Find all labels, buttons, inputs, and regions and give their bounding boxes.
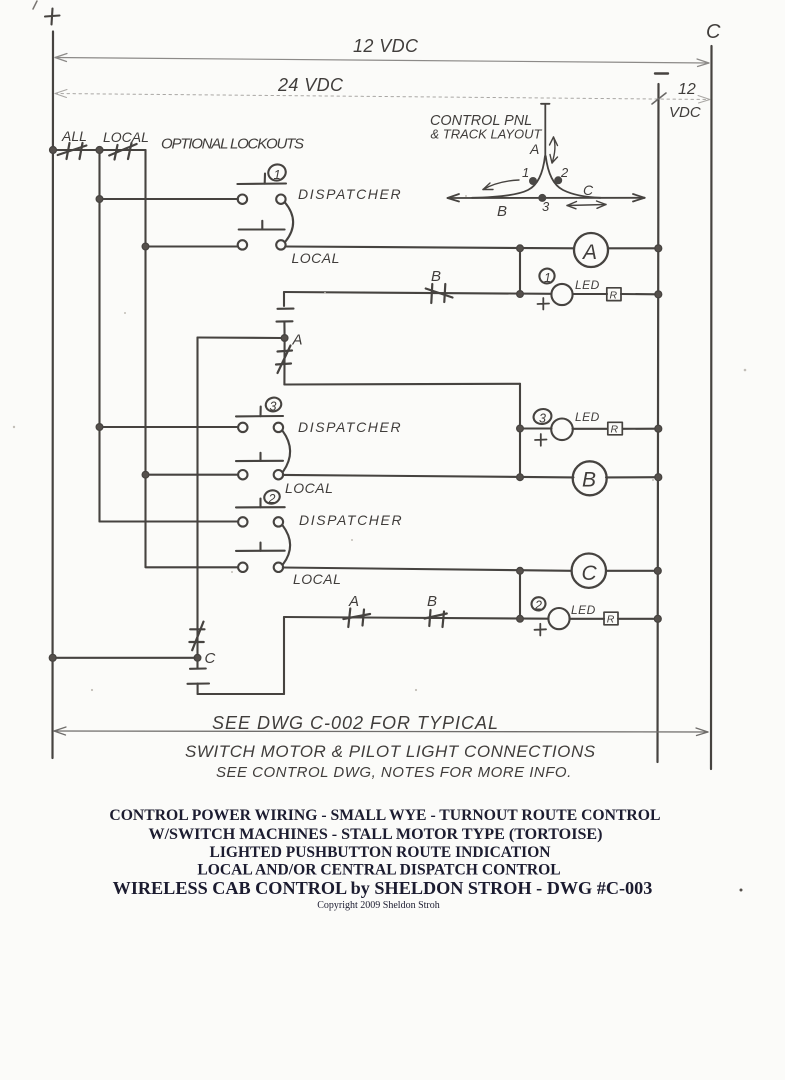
svg-text:& TRACK LAYOUT: & TRACK LAYOUT (431, 127, 543, 142)
svg-text:2: 2 (268, 492, 276, 506)
LED D1 (538, 284, 573, 310)
wire R8 PB3 local feed (146, 474, 239, 476)
node V3-R8 (142, 471, 149, 478)
svg-text:LED: LED (571, 603, 596, 617)
svg-text:DISPATCHER: DISPATCHER (298, 186, 402, 202)
wire R9 PB2 dispatcher feed (100, 520, 239, 522)
wire V4 (196, 338, 198, 669)
lockout slashes A column (276, 341, 292, 385)
svg-text:LIGHTED PUSHBUTTON ROUTE INDIC: LIGHTED PUSHBUTTON ROUTE INDICATION (210, 844, 551, 861)
wire R8 right to indicator B (283, 475, 574, 478)
pushbutton PB1 dispatcher contact (237, 174, 286, 204)
svg-text:ALL: ALL (61, 128, 87, 144)
node V7-R3 (655, 245, 662, 252)
node V6-R8 (517, 474, 524, 481)
node V7-LED3 (655, 425, 662, 432)
svg-text:1: 1 (274, 167, 281, 182)
LED3 row wire (520, 427, 552, 429)
svg-text:B: B (427, 593, 437, 610)
svg-text:B: B (431, 268, 441, 285)
node V2-R7 (96, 424, 103, 431)
node V6-R11 (517, 615, 524, 622)
wire V6 lower link (519, 571, 521, 619)
track sketch curve C leg (546, 156, 601, 198)
track dot 2 (554, 176, 562, 184)
arc PB1 link (285, 203, 293, 242)
lockout slashes C column (189, 622, 204, 651)
svg-text:B: B (582, 469, 596, 492)
circled 1 LED1 (538, 267, 557, 285)
svg-text:DISPATCHER: DISPATCHER (299, 512, 403, 528)
svg-text:A: A (529, 141, 539, 157)
svg-text:LOCAL: LOCAL (103, 129, 149, 145)
arc PB2 link (283, 525, 291, 564)
node V7-R8 (655, 474, 662, 481)
wire V1 left +24V bus (51, 32, 54, 759)
svg-text:LOCAL: LOCAL (285, 480, 333, 496)
track curved arrow A (550, 137, 558, 163)
svg-text:R: R (610, 290, 618, 302)
svg-text:VDC: VDC (669, 104, 701, 121)
node V6-R4 (517, 291, 524, 298)
svg-text:SWITCH MOTOR & PILOT LIGHT CON: SWITCH MOTOR & PILOT LIGHT CONNECTIONS (185, 742, 596, 761)
wire R2 PB1 dispatcher feed (100, 198, 239, 200)
arc PB3 link (283, 431, 291, 472)
svg-text:A: A (348, 593, 359, 610)
node V7-R11 (654, 615, 661, 622)
pushbutton PB1 local contact (238, 221, 286, 250)
svg-text:CONTROL POWER WIRING - SMALL W: CONTROL POWER WIRING - SMALL WYE - TURNO… (109, 807, 660, 824)
dimension line bottom (54, 727, 708, 736)
node V6-LED3 (517, 425, 524, 432)
svg-text:3: 3 (539, 412, 546, 426)
wire V2 (98, 150, 100, 522)
svg-text:W/SWITCH MACHINES - STALL MOTO: W/SWITCH MACHINES - STALL MOTOR TYPE (TO… (148, 826, 602, 843)
node V6-R3 (517, 245, 524, 252)
track sketch curve B leg (472, 156, 545, 198)
LED D3 (535, 419, 573, 446)
breaker LOCAL (109, 143, 136, 160)
svg-text:3: 3 (270, 400, 277, 414)
wire R11 LED2 row (284, 617, 549, 619)
svg-text:3: 3 (542, 199, 550, 214)
resistor R box 2 (604, 612, 618, 625)
node R1 junctions (50, 147, 57, 154)
wire V3 (144, 150, 146, 567)
plus terminal + (45, 9, 60, 25)
circled 2 LED2 (530, 596, 547, 613)
circled 2 PB2 (263, 489, 281, 506)
svg-text:R: R (607, 614, 615, 626)
wire V6 upper link (519, 248, 521, 294)
circled 3 LED3 (532, 407, 553, 425)
circled 1 PB1 (266, 162, 288, 183)
wire R3 local row to indicator A (146, 245, 239, 247)
label 12 VDC right (669, 81, 701, 121)
pushbutton PB3 local contact (236, 453, 283, 480)
node V6-R10 (517, 567, 524, 574)
circled 3 PB3 (264, 396, 283, 414)
svg-text:SEE DWG C-002 FOR TYPICAL: SEE DWG C-002 FOR TYPICAL (212, 713, 499, 733)
svg-text:C: C (583, 182, 594, 198)
node V3-R3 (142, 243, 149, 250)
breaker B row11 (425, 610, 447, 627)
svg-text:R: R (611, 424, 619, 436)
contact column A bottom plate (277, 321, 293, 338)
wire R13 bottom jog (198, 693, 284, 695)
svg-text:Copyright 2009 Sheldon Stroh: Copyright 2009 Sheldon Stroh (317, 900, 440, 911)
svg-text:LED: LED (575, 410, 600, 424)
period after C-003 (740, 889, 743, 892)
svg-text:A: A (581, 241, 597, 264)
node V7-R4 (655, 291, 662, 298)
minus polarity mark (655, 72, 668, 74)
svg-text:OPTIONAL LOCKOUTS: OPTIONAL LOCKOUTS (161, 136, 304, 153)
svg-text:LOCAL AND/OR CENTRAL DISPATCH: LOCAL AND/OR CENTRAL DISPATCH CONTROL (197, 861, 560, 878)
svg-text:SEE CONTROL DWG, NOTES FOR MOR: SEE CONTROL DWG, NOTES FOR MORE INFO. (216, 764, 572, 781)
track sketch base line (448, 194, 645, 202)
track arrow B (483, 180, 519, 190)
wire V8 right bus C (710, 46, 713, 769)
breaker ALL (58, 143, 87, 159)
contact column C plates (188, 669, 210, 695)
svg-text:LOCAL: LOCAL (293, 571, 341, 587)
indicator lamp B (573, 461, 607, 495)
wire R10 PB2 local feed (146, 566, 239, 568)
svg-text:A: A (292, 332, 303, 349)
wire R7 PB3 dispatcher feed (100, 426, 239, 428)
svg-text:1: 1 (544, 271, 551, 285)
track dot 3 (538, 194, 546, 202)
svg-text:2: 2 (560, 165, 569, 180)
svg-text:C: C (205, 650, 216, 667)
contact column A top plate (278, 292, 294, 309)
svg-text:B: B (497, 203, 507, 220)
wire R12 from left bus to node C (53, 657, 195, 659)
svg-text:24 VDC: 24 VDC (277, 75, 344, 95)
resistor R box 3 (608, 422, 623, 435)
track arrow C double (567, 201, 606, 209)
LED D2 (535, 608, 570, 636)
breaker A row11 (343, 609, 370, 628)
svg-text:LOCAL: LOCAL (292, 250, 340, 266)
wire V5b (283, 617, 285, 694)
pushbutton PB2 dispatcher contact (236, 499, 285, 527)
wire V6 middle segment (519, 384, 521, 477)
svg-text:LED: LED (575, 278, 600, 292)
wire V7 12VDC minus bus (658, 84, 659, 762)
svg-text:WIRELESS CAB CONTROL by SHELDO: WIRELESS CAB CONTROL by SHELDON STROH - … (113, 878, 653, 898)
wire R5 A node feed (198, 336, 282, 339)
title block printed text (109, 807, 660, 911)
node V2-R2 (96, 196, 103, 203)
svg-text:C: C (706, 21, 721, 43)
node A (281, 332, 302, 349)
wire R4 LED1 row (284, 292, 552, 294)
indicator lamp A (574, 233, 608, 267)
wire R6 (284, 383, 520, 386)
paper speckles (13, 195, 747, 691)
svg-text:DISPATCHER: DISPATCHER (298, 419, 402, 435)
stray pen tick top edge (33, 1, 37, 9)
dimension line 24 VDC (55, 90, 710, 105)
resistor R box 1 (607, 288, 621, 302)
wire R1 lockout row (53, 149, 146, 151)
track dot 1 (529, 177, 537, 185)
pushbutton PB2 local contact (236, 543, 285, 573)
breaker B row4 (426, 284, 453, 303)
svg-text:12 VDC: 12 VDC (353, 36, 419, 56)
svg-text:1: 1 (522, 165, 529, 180)
pushbutton PB3 dispatcher contact (236, 407, 283, 433)
dimension line 12 VDC (55, 54, 709, 67)
svg-text:C: C (582, 562, 598, 585)
node on V1 at R12 (49, 654, 56, 661)
node V7-R10 (654, 567, 661, 574)
node C junction (194, 650, 215, 667)
svg-text:12: 12 (678, 81, 696, 98)
indicator lamp C (572, 554, 606, 588)
svg-text:2: 2 (534, 599, 542, 613)
track sketch stem leg A (541, 104, 550, 156)
wire R10 right to indicator C (283, 568, 572, 571)
